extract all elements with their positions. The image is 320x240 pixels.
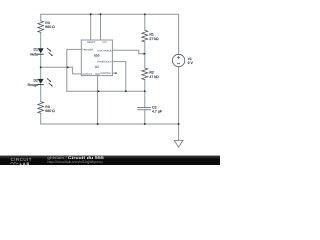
svg-text:555: 555 [94, 53, 100, 57]
resistor R1 [142, 30, 148, 42]
resistor R2 [142, 68, 148, 80]
wire R3 to D1 [40, 32, 42, 48]
svg-text:D2: D2 [34, 78, 39, 82]
svg-text:TRIGGER: TRIGGER [82, 48, 93, 51]
node tie at R2/C3 [144, 90, 146, 92]
wire reset stub [90, 14, 92, 40]
node threshold tie [125, 90, 127, 92]
wire D2 to R6 [40, 85, 42, 102]
resistor R6 [38, 102, 44, 114]
wire top rail [41, 14, 179, 54]
wire threshold [112, 62, 125, 92]
svg-text:D1: D1 [34, 48, 39, 52]
svg-text:LAB: LAB [20, 162, 31, 165]
voltage source V1 [172, 54, 184, 66]
node C3 on bottom rail [144, 123, 146, 125]
svg-text:VCC: VCC [102, 41, 107, 44]
resistor R3 [38, 21, 44, 33]
svg-text:CONTROL: CONTROL [100, 72, 112, 75]
svg-text:27 kΩ: 27 kΩ [149, 37, 159, 41]
node reset on top rail [90, 13, 92, 15]
wire LED node to trigger column [41, 66, 66, 68]
wire tie trigger-threshold [67, 90, 145, 92]
wire D1 to D2 [40, 54, 42, 79]
wire output dogleg [67, 67, 81, 74]
pin control open end [115, 72, 117, 74]
wire gnd stub [97, 76, 99, 124]
555 timer IC U1 body [81, 40, 112, 76]
wire discharge [112, 50, 143, 54]
node vcc on top rail [100, 13, 102, 15]
wire R1 top [144, 14, 146, 30]
svg-text:THRESHOLD: THRESHOLD [97, 61, 112, 64]
node gnd on bottom rail [97, 123, 99, 125]
svg-text:9 V: 9 V [188, 61, 194, 65]
wire vcc stub [100, 14, 102, 40]
svg-text:47 kΩ: 47 kΩ [149, 75, 159, 79]
labels [28, 21, 194, 113]
capacitor C3 [137, 107, 151, 109]
svg-text:DISCHARGE: DISCHARGE [98, 49, 112, 52]
node arrow at trigger column [67, 66, 70, 68]
svg-text:RESET: RESET [87, 41, 95, 44]
wire trigger vertical [67, 49, 82, 91]
node V1 on bottom rail [178, 123, 180, 125]
node arrow at gnd stub [98, 90, 101, 92]
wire R1 to R2 [144, 42, 146, 68]
wire R2 to C3 [144, 80, 146, 108]
ground [174, 140, 183, 147]
svg-text:860 Ω: 860 Ω [45, 25, 55, 29]
wire C3 to bottom rail [144, 110, 146, 124]
svg-text:R1: R1 [149, 32, 154, 36]
svg-text:U1: U1 [95, 65, 99, 69]
logo circuitlab [10, 157, 32, 166]
footer bar [0, 156, 220, 165]
wire control stub [112, 72, 115, 74]
label 555 / U1 [94, 53, 100, 69]
node LED junction at output [40, 66, 42, 68]
svg-text:http://circuitlab.com/c/62qj98: http://circuitlab.com/c/62qj98/proxy [48, 160, 104, 164]
LED D1 [38, 48, 53, 56]
svg-text:4.7 µF: 4.7 µF [152, 109, 162, 113]
svg-text:Rouge: Rouge [28, 83, 38, 87]
svg-text:OUTPUT: OUTPUT [82, 73, 92, 76]
LED D2 [38, 78, 53, 86]
wire V1 to rail and ground [178, 67, 180, 141]
wire R6 to bottom rail [41, 113, 179, 124]
svg-text:680 Ω: 680 Ω [45, 109, 55, 113]
node R1 on top rail [144, 13, 146, 15]
svg-text:R2: R2 [149, 71, 154, 75]
footer caption [47, 155, 105, 164]
svg-text:GND: GND [95, 73, 100, 76]
node arrow discharge at R1/R2 [144, 53, 147, 55]
svg-text:Verte: Verte [30, 52, 38, 56]
